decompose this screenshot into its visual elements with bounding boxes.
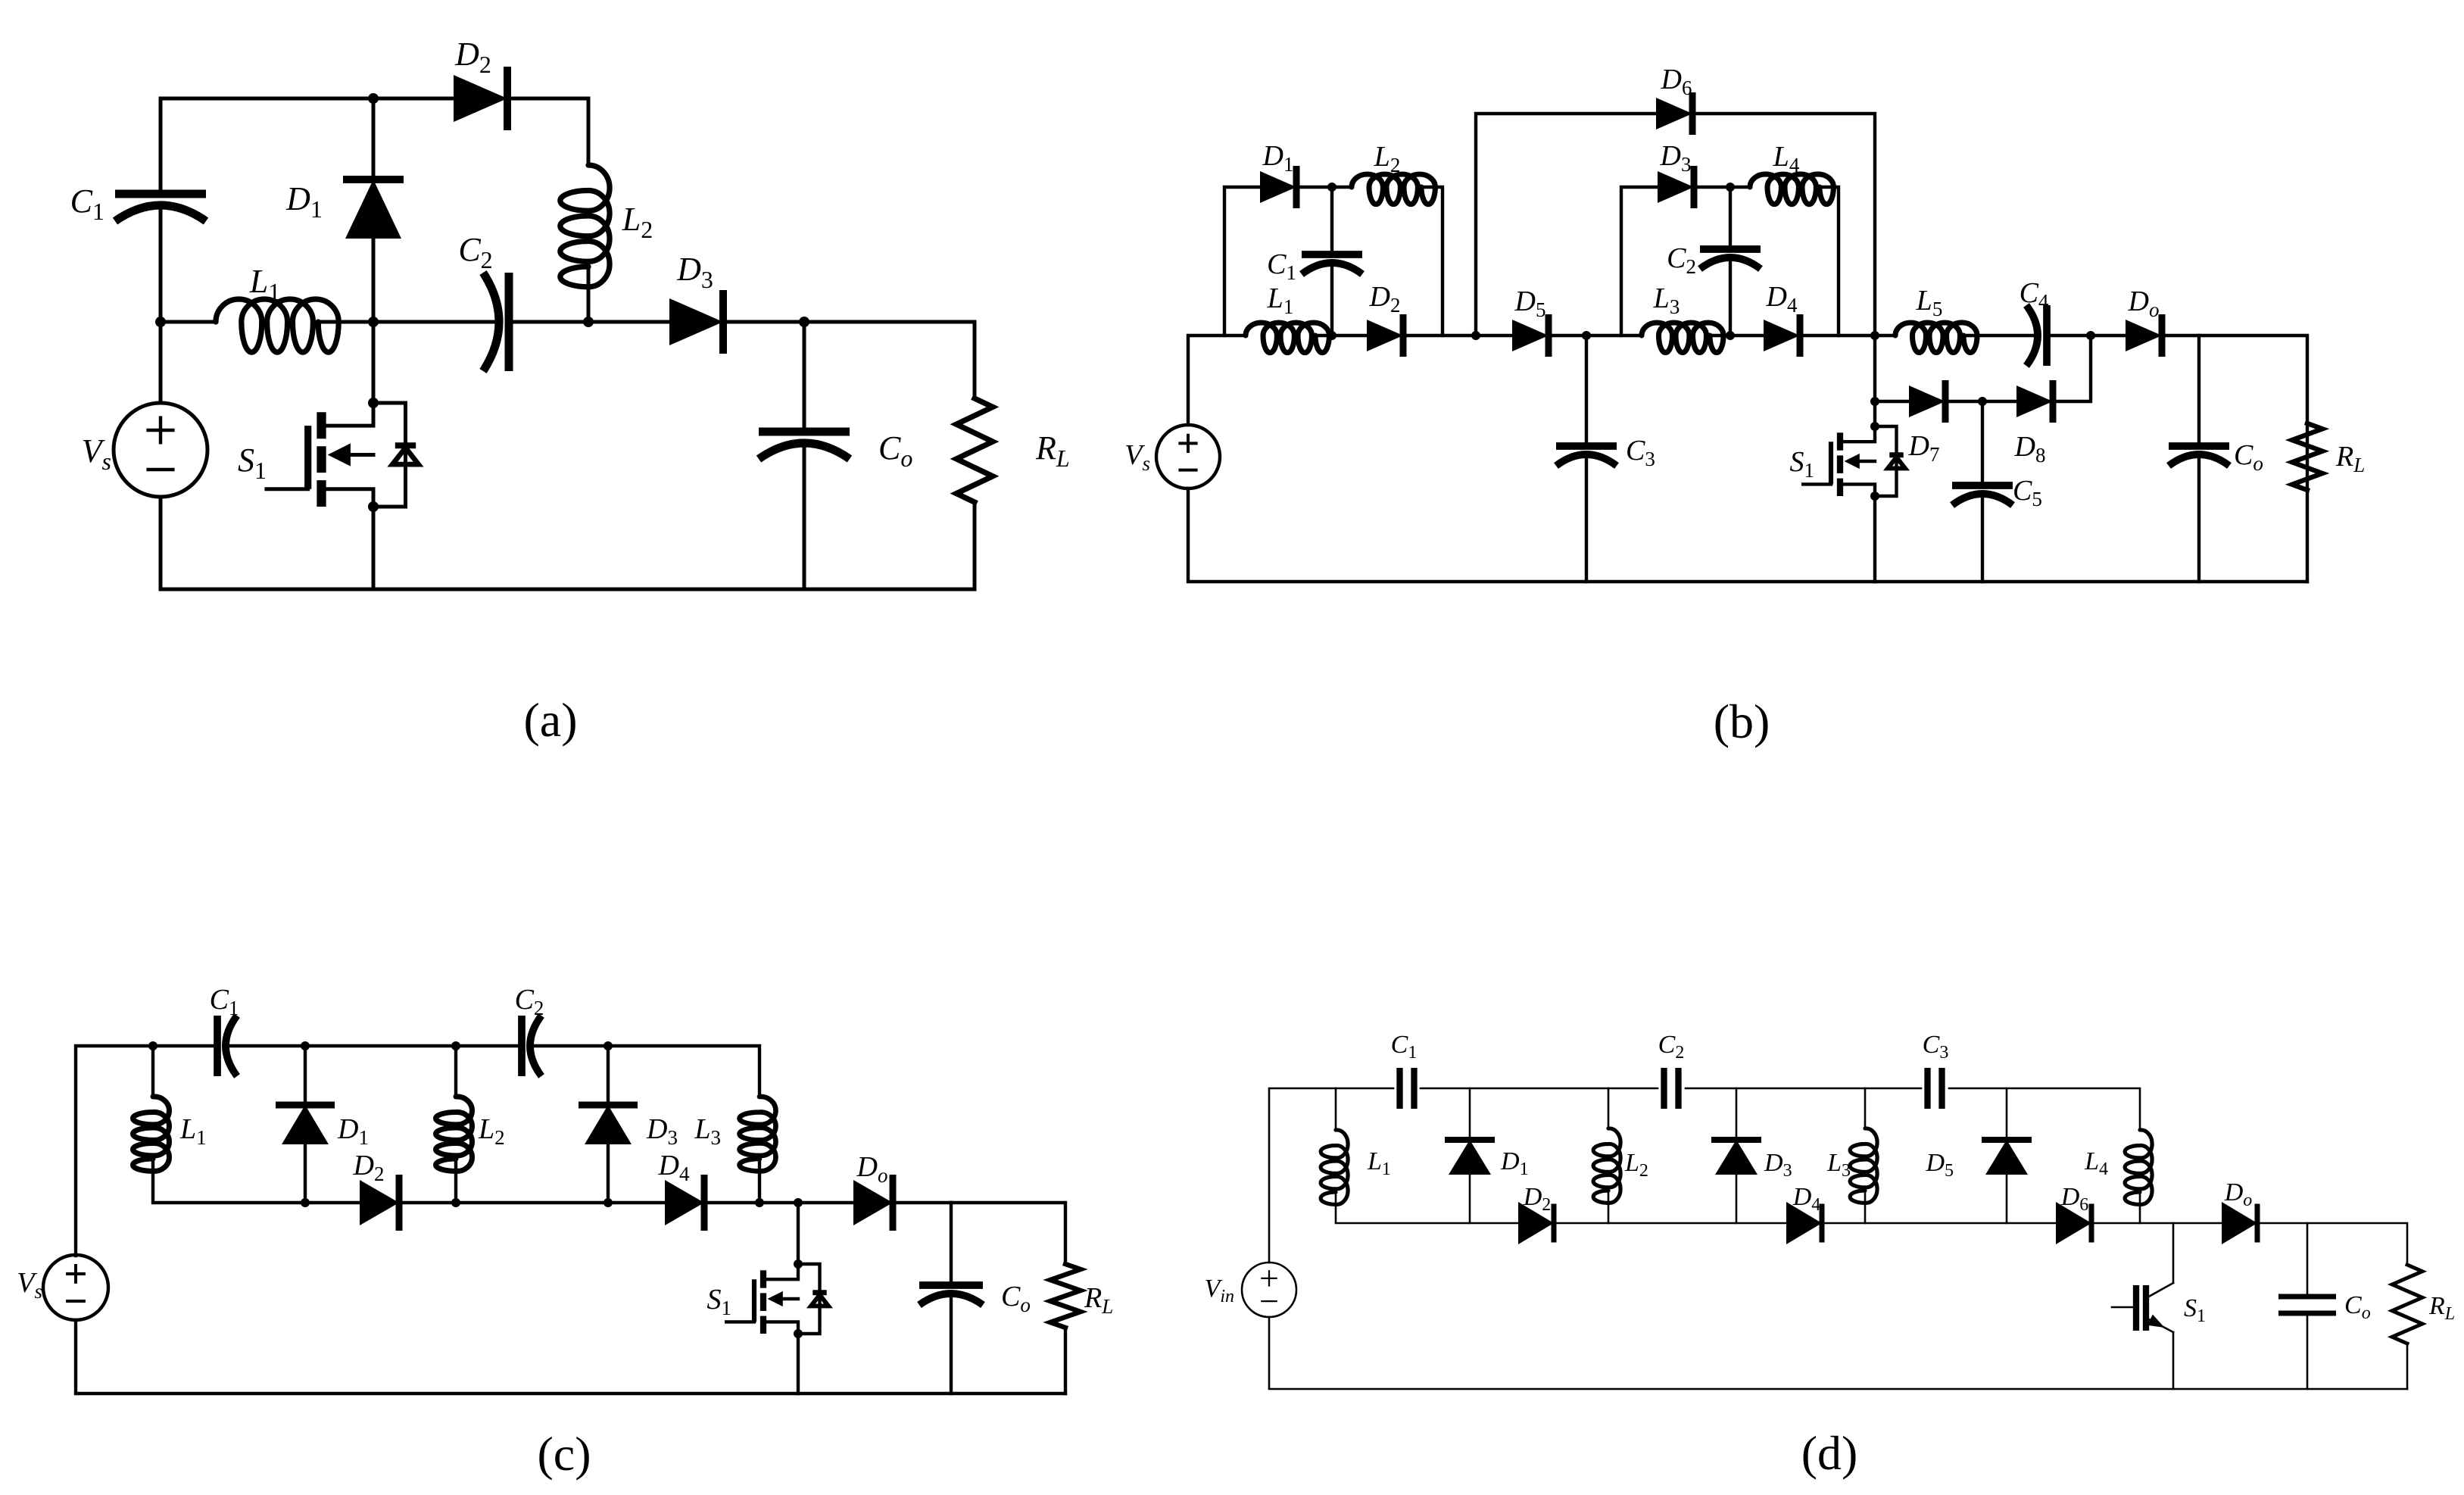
svg-text:(a): (a) — [523, 693, 577, 747]
svg-text:(c): (c) — [537, 1427, 591, 1481]
svg-text:(b): (b) — [1714, 694, 1770, 748]
svg-text:(d): (d) — [1801, 1426, 1858, 1480]
